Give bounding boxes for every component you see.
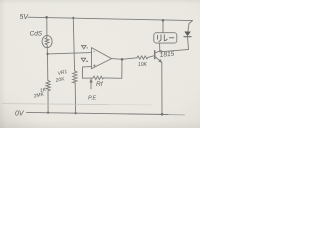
- svg-text:-: -: [93, 49, 95, 55]
- svg-text:P.E: P.E: [88, 96, 96, 102]
- svg-text:10K: 10K: [138, 62, 148, 68]
- svg-text:+: +: [93, 63, 96, 69]
- svg-text:5V: 5V: [20, 14, 30, 21]
- svg-text:0V: 0V: [15, 110, 25, 117]
- svg-text:CdS: CdS: [30, 31, 43, 38]
